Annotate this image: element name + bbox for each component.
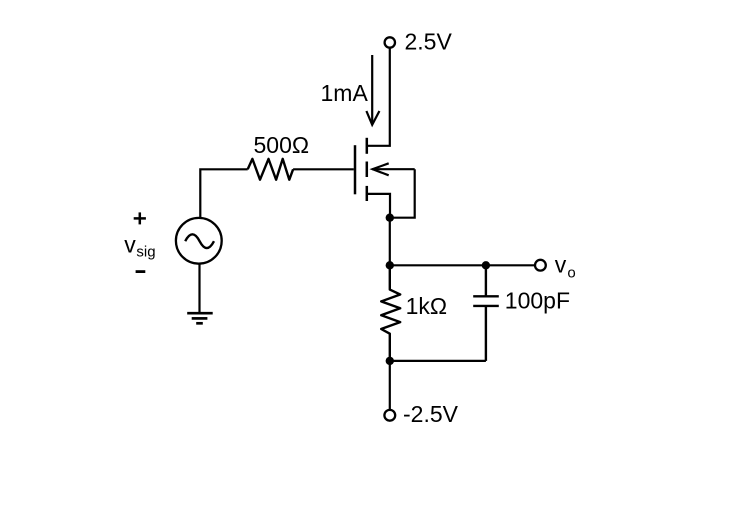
ground	[187, 313, 213, 323]
source VSIG sine source	[176, 218, 222, 264]
label vo	[555, 252, 576, 282]
wire source node to output node	[389, 218, 391, 266]
svg-text:-2.5V: -2.5V	[403, 401, 459, 427]
label plus	[134, 212, 146, 224]
wire VDD to drain	[367, 48, 390, 146]
terminal vo	[535, 260, 546, 271]
transistor Q1 channel segments	[366, 138, 369, 201]
junction lower node	[386, 357, 394, 365]
svg-text:v: v	[555, 252, 567, 278]
svg-text:500Ω: 500Ω	[254, 132, 310, 158]
svg-text:sig: sig	[136, 244, 155, 261]
current arrow 1mA	[366, 55, 379, 125]
svg-text:v: v	[124, 231, 136, 257]
resistor R1 500Ohm	[248, 159, 293, 180]
junction output node	[386, 261, 394, 269]
svg-text:100pF: 100pF	[505, 288, 570, 314]
transistor Q1 source lead	[367, 194, 390, 215]
wire output node to vo terminal	[390, 264, 535, 266]
svg-text:1mA: 1mA	[321, 80, 369, 106]
terminal VSS -2.5V	[384, 410, 395, 421]
transistor Q1 body lead with arrow	[372, 163, 415, 175]
wire source top to resistor	[200, 169, 247, 217]
label vsig	[124, 231, 155, 260]
terminal VDD +2.5V	[385, 37, 395, 47]
wire body to source node	[390, 169, 415, 218]
junction capacitor tap	[482, 261, 490, 269]
junction node source/body	[386, 214, 394, 222]
wire capacitor bottom to lower node	[390, 360, 486, 362]
wire source bottom to ground	[198, 264, 200, 313]
svg-text:2.5V: 2.5V	[405, 28, 453, 54]
wire lower node to VSS terminal	[389, 361, 391, 410]
svg-text:1kΩ: 1kΩ	[406, 293, 448, 319]
svg-text:o: o	[567, 265, 575, 282]
wire resistor to gate	[293, 168, 354, 170]
capacitor C1 100pF	[473, 265, 499, 361]
transistor Q1 gate bar	[354, 145, 357, 194]
resistor R2 1kOhm	[381, 265, 400, 361]
label minus	[136, 270, 146, 273]
